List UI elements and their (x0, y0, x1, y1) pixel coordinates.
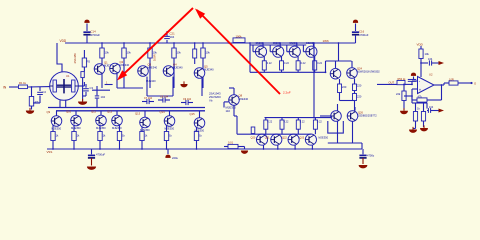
svg-text:10k: 10k (206, 51, 211, 55)
dual JFET U1 input pair (50, 72, 79, 101)
svg-text:Q12: Q12 (107, 109, 113, 113)
svg-text:104: 104 (170, 35, 175, 39)
svg-text:1W6: 1W6 (323, 39, 330, 43)
resistor emitter Q21 0R22 (280, 118, 289, 135)
transistor Q22 2SA1943 (282, 134, 299, 145)
svg-text:MJE350: MJE350 (96, 126, 106, 130)
transistor Q18 2SC5200 (289, 42, 300, 57)
svg-text:104: 104 (101, 95, 106, 99)
resistor R20 100k on rail (228, 35, 251, 44)
resistor collector feed A1 (100, 42, 110, 88)
svg-text:4700uF: 4700uF (96, 153, 105, 157)
resistor collector feed A4 (172, 42, 182, 88)
svg-text:Vb: Vb (209, 99, 213, 103)
svg-text:10k: 10k (105, 51, 110, 55)
label MJE340 below c3 (146, 79, 156, 83)
wire Q12 base (116, 111, 118, 115)
transistor Q2 MJE340 rowA (110, 60, 130, 74)
svg-text:0.22: 0.22 (284, 121, 289, 124)
net arrow bottom (439, 109, 445, 113)
wire output stage left vertical (249, 43, 251, 72)
annotation red line right segment (195, 9, 280, 95)
transistor Q15 MJE350 rowB (190, 112, 205, 133)
capacitor C12 output supply (359, 149, 374, 164)
wire bottom base bus (237, 133, 311, 135)
power flag VDD2 (417, 43, 424, 47)
svg-text:C7 104: C7 104 (144, 97, 153, 100)
wire c2 emitter down (117, 74, 143, 88)
wire input to grid (28, 86, 50, 88)
svg-text:C8 104: C8 104 (160, 95, 169, 98)
svg-text:0.22: 0.22 (317, 121, 322, 124)
resistor R31 small (251, 127, 255, 134)
svg-text:100k: 100k (236, 35, 243, 39)
value label vertical 2SK389 (73, 53, 77, 64)
svg-text:220u: 220u (172, 156, 178, 160)
label 1W6 (323, 39, 330, 43)
resistor emitter Q12 (117, 125, 125, 150)
wire top base bus (250, 44, 306, 46)
resistor collector feed A2 (122, 42, 132, 88)
svg-text:0.01: 0.01 (228, 141, 234, 145)
resistor emitter Q10 (72, 125, 80, 150)
wire output node rail (250, 71, 326, 73)
svg-text:Q10: Q10 (66, 109, 72, 113)
wire sub mid link (412, 96, 427, 109)
svg-text:110: 110 (226, 109, 231, 113)
wire lower driver base (320, 116, 332, 118)
svg-text:0.22: 0.22 (317, 62, 322, 65)
resistor emitter Q15 (194, 127, 202, 149)
svg-text:220: 220 (342, 85, 347, 89)
port IN (3, 86, 18, 90)
capacitor C2 input shunt (33, 87, 46, 103)
ground R54 (400, 108, 408, 114)
resistor R40 220R (338, 79, 347, 101)
resistor emitter Q19 0R22 (313, 57, 323, 73)
resistor R55 lower (413, 103, 418, 129)
svg-text:10k: 10k (153, 51, 158, 55)
resistor R30 on bottom (224, 141, 245, 149)
svg-text:2SK389: 2SK389 (73, 53, 77, 64)
capacitor C53 104 bottom (427, 106, 439, 113)
ground bottom mid (241, 151, 248, 154)
svg-text:MJE350: MJE350 (71, 126, 81, 130)
resistor emitter Q11 (98, 125, 106, 150)
svg-text:Q20: Q20 (251, 136, 256, 139)
capacitor C9 104 (181, 98, 193, 105)
svg-text:VDD: VDD (60, 39, 67, 43)
wire Q19 base (303, 45, 305, 52)
resistor R5 lower (81, 72, 84, 101)
transistor Q8 VAS (229, 94, 249, 106)
wire op-amp plus input (412, 89, 418, 96)
svg-text:U1: U1 (66, 74, 70, 78)
power flag VSS (47, 150, 53, 154)
wire lower drivers to rail (328, 121, 362, 149)
wire lower driver U link (328, 121, 344, 133)
wire VAS emitter to base bus (236, 116, 238, 134)
transistor Q11 MJE350 rowB (91, 109, 106, 130)
svg-text:10k: 10k (127, 51, 132, 55)
wire rail to driver bus (338, 43, 340, 61)
transistor Q4 MJE340 rowA (163, 63, 183, 77)
wire tube right lead (78, 82, 84, 86)
transistor Q1 MJE340 rowA (94, 61, 114, 75)
transistor Q17 2SC5200 (273, 42, 284, 57)
wire VCC top rail (65, 42, 356, 44)
wire Q19 collector (313, 42, 315, 46)
svg-text:4700uF: 4700uF (91, 33, 101, 37)
ground R56 (420, 125, 428, 131)
transistor Q23 2SA1943 (299, 134, 316, 145)
annotation label (283, 90, 291, 94)
ground cathode network (78, 99, 87, 105)
svg-text:10k: 10k (177, 51, 182, 55)
svg-text:220: 220 (357, 95, 362, 99)
resistor emitter Q13 (140, 127, 148, 150)
wire emitter bus left (92, 89, 110, 91)
ground R55 (409, 127, 417, 133)
transistor Q24 driver upper (330, 61, 341, 79)
resistor R52 output series (444, 77, 471, 85)
wire emitter segment c1 (105, 81, 113, 84)
wire bottom resistor bus (265, 117, 333, 119)
transistor Q20 2SA1943 (251, 134, 268, 145)
resistor collector feed A5 (201, 42, 211, 88)
resistor emitter Q17 0R22 (280, 57, 290, 73)
wire to opamp input (405, 81, 418, 85)
svg-text:C3: C3 (90, 86, 94, 90)
wire rail to tube top (57, 43, 62, 72)
capacitor C7 104 (142, 97, 154, 104)
resistor R51 pullup (419, 46, 430, 77)
resistor R42 220R stacked (353, 91, 362, 111)
capacitor C11 electrolytic red (165, 149, 178, 160)
svg-text:22k: 22k (396, 92, 401, 96)
transistor Q19 2SC5200 (306, 42, 317, 57)
svg-text:0.22: 0.22 (301, 62, 306, 65)
svg-text:104: 104 (429, 106, 434, 109)
svg-text:Q13: Q13 (135, 111, 141, 115)
svg-text:104: 104 (428, 57, 433, 61)
wire Q10 base (75, 111, 77, 115)
svg-text:OUT: OUT (389, 80, 395, 84)
wire VSS bottom rail (47, 148, 362, 150)
net label block A (209, 92, 221, 103)
transistor Q5 MJE340 rowA (194, 65, 214, 79)
transistor Q25 driver upper (347, 61, 381, 78)
svg-text:C9 104: C9 104 (183, 98, 192, 101)
wire Q18 base (287, 45, 289, 52)
label MJE right of Q23 (319, 136, 329, 140)
wire feedback (427, 85, 442, 100)
svg-text:100R: 100R (153, 54, 157, 61)
ground mid (180, 81, 187, 87)
svg-text:0.22: 0.22 (267, 62, 272, 65)
ground input (26, 108, 34, 114)
capacitor C52 104 top (420, 57, 438, 66)
capacitor C8 104 (158, 95, 170, 102)
svg-text:U2: U2 (429, 73, 433, 77)
junction dots on rail (313, 42, 339, 44)
svg-text:10k: 10k (425, 52, 430, 56)
svg-text:47k: 47k (418, 94, 423, 98)
transistor Q13 MJE350 rowB (135, 111, 150, 132)
svg-text:MJE340: MJE340 (204, 68, 214, 72)
transistor Q26 driver lower (331, 104, 342, 121)
resistor R1 input series (19, 81, 28, 88)
wire Q17 base (270, 45, 272, 52)
svg-text:R5: R5 (87, 60, 91, 64)
wire speaker line (377, 80, 397, 84)
svg-text:Q9: Q9 (47, 110, 51, 114)
svg-text:Q22: Q22 (282, 136, 287, 139)
capacitor C21 104 decoupling (164, 31, 175, 43)
transistor Q3 MJE340 rowA (138, 63, 158, 77)
transistor Q12 MJE350 rowB (107, 109, 122, 130)
resistor emitter Q14 (164, 125, 172, 149)
transistor Q27 driver lower (347, 107, 377, 121)
wire VAS collector (229, 88, 234, 95)
svg-text:0.22: 0.22 (284, 62, 289, 65)
port OUT (470, 82, 477, 86)
wire tube bottom leads (60, 100, 66, 108)
svg-text:Q11: Q11 (91, 109, 96, 113)
svg-text:MJE340: MJE340 (148, 66, 158, 70)
svg-text:Q23: Q23 (299, 136, 304, 139)
resistor R41 220R (353, 79, 362, 91)
transistor Q14 MJE350 rowB (160, 110, 175, 131)
svg-text:220: 220 (357, 84, 362, 88)
svg-text:MJE350: MJE350 (112, 126, 122, 130)
svg-text:Q21: Q21 (265, 136, 270, 139)
wire Q17 collector (279, 42, 281, 46)
svg-text:C2: C2 (43, 90, 47, 94)
wire Q14 base (169, 111, 171, 116)
svg-text:2.2uF: 2.2uF (283, 90, 291, 94)
wire Q16 base (253, 45, 255, 52)
wire c3 c4 emitters (147, 77, 173, 96)
capacitor C16 4700uF electrolytic right (352, 20, 369, 43)
resistor R54 to gnd (396, 84, 406, 110)
resistor emitter Q22 0R22 (296, 118, 305, 135)
capacitor C14 4700uF electrolytic left (83, 20, 100, 43)
wire sub lower bus (404, 95, 412, 97)
resistor emitter Q9 (51, 125, 59, 149)
svg-text:2SD882/2SB772: 2SD882/2SB772 (358, 115, 377, 118)
wire VAS column (193, 42, 197, 64)
annotation red line left segment (117, 8, 193, 81)
power flag VDD (60, 39, 67, 43)
wire c5 emitter (201, 78, 203, 96)
svg-text:VSS: VSS (47, 150, 53, 154)
resistor emitter Q20 0R22 (264, 118, 273, 135)
svg-text:NJW0281/NJW0302: NJW0281/NJW0302 (357, 71, 380, 74)
wire VAS emitter (234, 105, 237, 116)
wire op-amp output (434, 84, 444, 86)
net arrow top (439, 61, 445, 65)
wire drivers join (340, 100, 355, 102)
ground C10 (87, 167, 96, 170)
capacitor C51 polarized input (408, 73, 416, 82)
wire Q13 base (144, 111, 146, 117)
resistor R50 series (397, 78, 406, 85)
wire Q21 emitter (277, 145, 279, 149)
wire Q9 base (56, 111, 58, 116)
net label block B (226, 106, 237, 114)
svg-text:MJE350: MJE350 (319, 136, 329, 140)
resistor R53 feedback (411, 94, 427, 102)
svg-text:VDD: VDD (417, 43, 424, 47)
resistor R56 lower (417, 103, 426, 127)
resistor emitter Q16 0R22 (262, 57, 272, 73)
wire Q16 collector (262, 42, 264, 46)
svg-text:MJE340: MJE340 (173, 66, 183, 70)
wire Q23 emitter (311, 145, 313, 149)
wire lower bus 2 (56, 110, 205, 112)
ground C12 (359, 165, 368, 168)
resistor emitter Q23 0R22 (313, 118, 322, 135)
wire driver top bus (325, 61, 352, 73)
op-amp U2 (418, 73, 435, 94)
resistor collector feed A3 (148, 42, 158, 88)
capacitor C3 bypass (83, 84, 94, 96)
svg-text:Q14: Q14 (160, 110, 166, 114)
resistor emitter Q18 0R22 (296, 57, 306, 73)
resistor R2 47k to ground (29, 87, 39, 110)
svg-text:MJE340: MJE340 (120, 63, 130, 67)
wire column with cap 104 (95, 86, 106, 108)
svg-text:4700uF: 4700uF (359, 33, 369, 37)
wire Q15 base (199, 111, 201, 118)
transistor Q16 2SC5200 (255, 42, 266, 57)
transistor Q10 MJE350 rowB (66, 109, 81, 130)
transistor Q21 2SA1943 (265, 134, 282, 145)
wire output column vertical (313, 43, 315, 118)
value label vertical mid (153, 54, 157, 61)
wire Q11 base (100, 111, 102, 115)
wire Q22 emitter (294, 145, 296, 149)
svg-text:10R: 10R (449, 77, 454, 81)
svg-text:4700u: 4700u (367, 154, 375, 158)
wire lower bus 1 (48, 107, 205, 109)
resistor R4 source (82, 50, 90, 72)
wire Q20 emitter (263, 145, 265, 149)
wire VAS base (224, 102, 229, 108)
svg-text:Q15: Q15 (190, 112, 196, 116)
svg-text:0.22: 0.22 (300, 121, 305, 124)
capacitor C10 4700uF (88, 149, 106, 166)
svg-text:R1 1k: R1 1k (19, 81, 27, 85)
svg-text:R50 1k: R50 1k (398, 78, 407, 81)
wire Q18 collector (296, 42, 298, 46)
svg-text:MJE340: MJE340 (239, 97, 249, 101)
svg-text:0.22: 0.22 (267, 121, 272, 124)
transistor Q9 MJE350 rowB (47, 110, 62, 131)
